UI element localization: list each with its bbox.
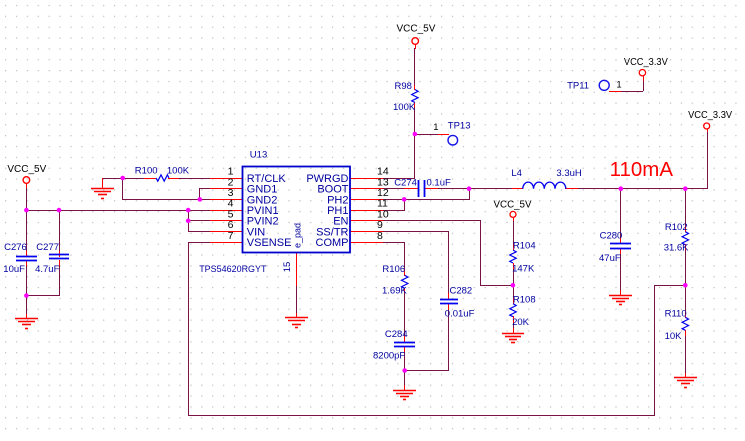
svg-text:1: 1 [616,80,621,91]
svg-text:47uF: 47uF [599,253,621,264]
svg-text:VSENSE: VSENSE [247,237,292,249]
svg-text:L4: L4 [511,168,522,179]
svg-text:1.69K: 1.69K [382,286,407,297]
svg-text:TP13: TP13 [448,121,471,132]
svg-text:C277: C277 [36,242,59,253]
svg-text:7: 7 [228,230,234,242]
svg-text:10uF: 10uF [3,264,25,275]
svg-text:R100: R100 [135,165,158,176]
svg-text:R102: R102 [665,222,688,233]
svg-text:C282: C282 [450,286,473,297]
svg-text:VCC_5V: VCC_5V [7,164,46,175]
svg-text:147K: 147K [512,264,535,275]
svg-text:0.01uF: 0.01uF [445,308,475,319]
svg-text:100K: 100K [167,165,190,176]
svg-text:R98: R98 [395,81,412,92]
svg-text:R108: R108 [513,295,536,306]
svg-text:31.6K: 31.6K [664,243,689,254]
svg-text:TPS54620RGYT: TPS54620RGYT [199,264,266,275]
svg-text:VCC_3.3V: VCC_3.3V [688,110,732,121]
svg-text:COMP: COMP [316,237,349,249]
svg-text:R110: R110 [665,309,687,320]
svg-text:10K: 10K [665,331,683,342]
svg-text:100K: 100K [393,102,416,113]
svg-text:8: 8 [377,230,383,242]
svg-text:C280: C280 [600,230,623,241]
svg-text:R104: R104 [513,241,536,252]
svg-text:1: 1 [433,122,438,133]
svg-text:VCC_5V: VCC_5V [397,23,436,34]
svg-text:C276: C276 [4,242,27,253]
svg-text:U13: U13 [250,149,267,160]
svg-text:110mA: 110mA [610,159,674,181]
svg-text:15: 15 [282,262,293,273]
svg-text:VCC_3.3V: VCC_3.3V [624,57,668,68]
svg-text:C274: C274 [394,177,417,188]
svg-text:4.7uF: 4.7uF [35,264,59,275]
svg-text:3.3uH: 3.3uH [556,168,581,179]
svg-text:20K: 20K [512,317,530,328]
svg-text:R106: R106 [382,264,405,275]
svg-text:8200pF: 8200pF [373,350,405,361]
svg-text:C284: C284 [385,329,408,340]
svg-text:e_pad: e_pad [293,223,303,248]
svg-text:TP11: TP11 [567,80,589,91]
svg-text:VCC_5V: VCC_5V [494,199,532,210]
svg-text:0.1uF: 0.1uF [427,177,451,188]
